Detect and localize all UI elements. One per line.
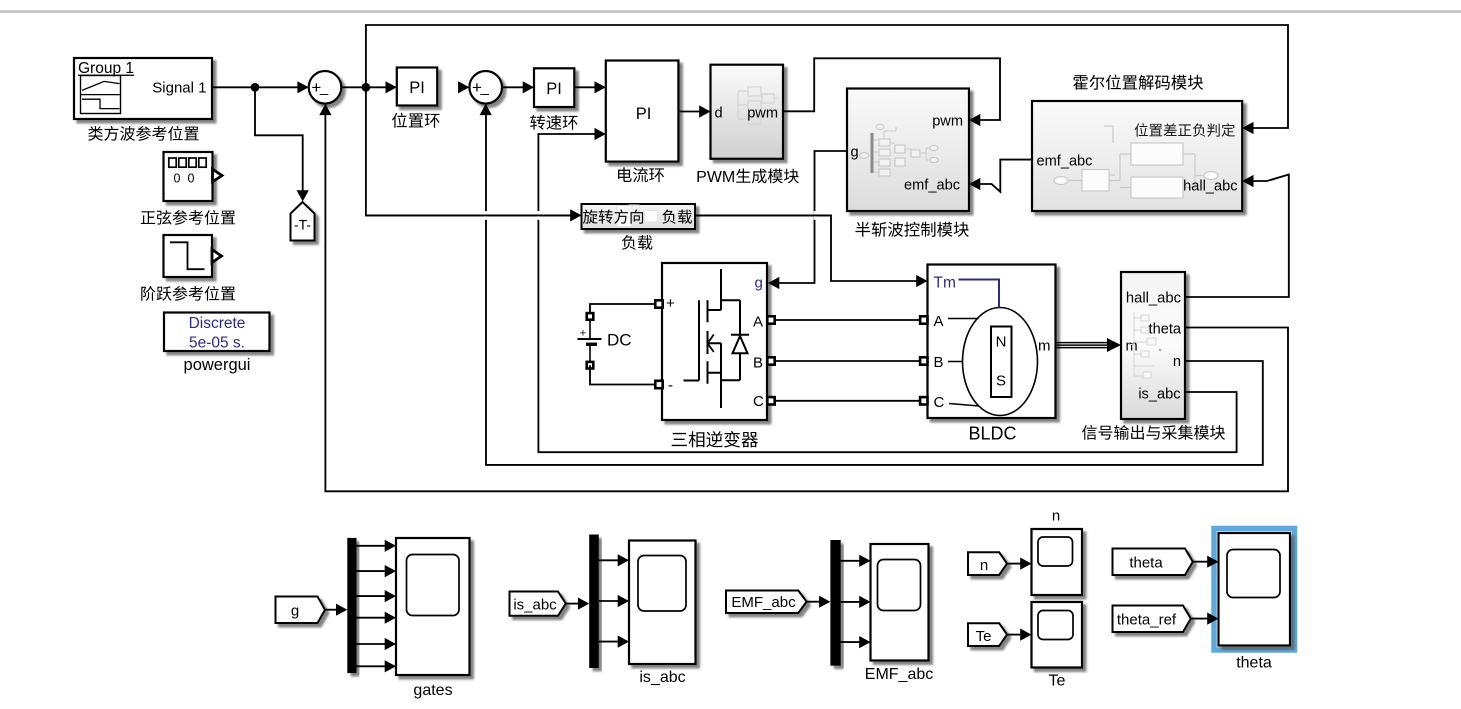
svg-text:gates: gates — [413, 682, 452, 699]
svg-text:Te: Te — [976, 628, 992, 645]
svg-text:Te: Te — [1049, 673, 1066, 690]
svg-text:hall_abc: hall_abc — [1183, 179, 1237, 195]
svg-text:pwm: pwm — [747, 106, 778, 122]
svg-text:A: A — [753, 313, 763, 330]
svg-text:g: g — [851, 145, 859, 161]
svg-text:BLDC: BLDC — [968, 424, 1016, 444]
svg-text:C: C — [753, 393, 764, 410]
svg-text:hall_abc: hall_abc — [1126, 291, 1182, 307]
svg-text:emf_abc: emf_abc — [904, 178, 960, 194]
svg-text:theta: theta — [1129, 555, 1163, 572]
svg-text:Signal 1: Signal 1 — [152, 80, 206, 97]
svg-text:C: C — [934, 394, 945, 411]
svg-text:-: - — [668, 377, 673, 394]
svg-text:B: B — [753, 354, 763, 371]
svg-text:n: n — [1173, 354, 1181, 370]
svg-text:d: d — [715, 106, 723, 122]
svg-text:pwm: pwm — [932, 114, 963, 130]
svg-text:theta_ref: theta_ref — [1117, 612, 1177, 629]
svg-text:Group 1: Group 1 — [78, 60, 134, 77]
svg-text:n: n — [1052, 508, 1060, 525]
svg-text:Tm: Tm — [934, 275, 956, 292]
svg-text:DC: DC — [607, 331, 632, 350]
svg-text:_: _ — [480, 79, 490, 96]
svg-text:_: _ — [319, 79, 329, 96]
svg-text:B: B — [934, 354, 944, 371]
svg-text:S: S — [996, 373, 1006, 390]
svg-text:is_abc: is_abc — [1138, 387, 1180, 403]
svg-text:0: 0 — [188, 172, 195, 186]
svg-text:theta: theta — [1236, 655, 1272, 672]
svg-text:EMF_abc: EMF_abc — [865, 666, 933, 683]
svg-text:n: n — [980, 557, 988, 574]
svg-text:PI: PI — [409, 79, 425, 97]
svg-text:emf_abc: emf_abc — [1037, 154, 1093, 170]
svg-text:5e-05 s.: 5e-05 s. — [189, 335, 245, 352]
svg-text:+: + — [666, 295, 675, 312]
svg-text:powergui: powergui — [184, 356, 251, 374]
svg-text:theta: theta — [1149, 322, 1182, 338]
svg-text:+: + — [580, 328, 586, 340]
svg-text:m: m — [1038, 338, 1051, 355]
svg-text:PWM: PWM — [696, 169, 735, 186]
svg-text:EMF_abc: EMF_abc — [731, 594, 796, 611]
svg-text:m: m — [1126, 339, 1138, 355]
svg-text:A: A — [934, 313, 944, 330]
svg-text:PI: PI — [546, 80, 562, 98]
svg-text:-T-: -T- — [294, 217, 311, 233]
svg-text:g: g — [291, 603, 299, 620]
svg-text:N: N — [996, 334, 1007, 351]
svg-text:Discrete: Discrete — [189, 315, 246, 332]
svg-text:is_abc: is_abc — [513, 596, 557, 613]
svg-text:PI: PI — [636, 105, 652, 123]
svg-text:0: 0 — [174, 172, 181, 186]
svg-text:g: g — [755, 275, 763, 292]
svg-text:is_abc: is_abc — [639, 669, 685, 686]
